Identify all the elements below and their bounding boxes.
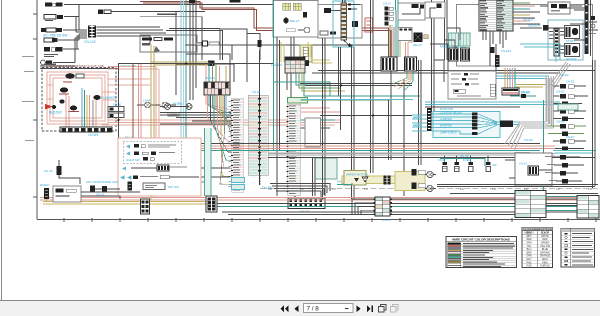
mid verticals [323,0,448,200]
teal junction boxes right-bottom of red box [124,136,146,146]
lamp L2 [162,102,176,108]
svg-text:CN-105: CN-105 [205,76,215,80]
junction box C [398,28,412,41]
teal risers [396,0,399,12]
fuse blocks F1 [108,103,124,118]
panel connectors [472,113,478,136]
border tick marks [33,14,596,222]
page number field [304,304,354,313]
vertical trunk lines left of grid [119,64,142,196]
legend text lines [463,243,515,267]
hanging sensor S4 [486,156,497,172]
teal horizontal y99 [301,99,414,101]
wires exiting column C right [301,100,391,128]
aircon connectors [90,186,120,197]
tiny label row above box [46,64,137,68]
wires out of table right [513,3,540,24]
cyan panel border [433,112,500,138]
fuse grid CN-F [374,197,393,216]
yellow channel run [342,171,425,191]
harness strip CN-B (tall colored stack) [248,40,268,185]
relay inside U1 [283,18,288,24]
cyan bundle lower right [553,151,596,154]
dashed switch group [123,141,181,163]
relay box U2 [318,5,362,39]
svg-text:MOTOR: MOTOR [566,57,576,61]
switch row 2 [126,152,130,156]
teal feed into channel [337,183,352,185]
connector P1 [45,3,79,7]
lamp L4 [425,185,436,191]
svg-text:CN-F1: CN-F1 [382,218,391,222]
wires from mini table to right [546,197,577,211]
svg-text:BUZZER: BUZZER [49,111,62,115]
snapshot icon [379,305,387,313]
engine harness enclosure edge [457,5,593,67]
mid horizontal wires [160,113,231,125]
starter relay assembly enclosure [548,20,583,61]
svg-text:LAMP: LAMP [143,99,151,103]
svg-text:B-METER: B-METER [440,124,452,128]
column C pin marks [287,106,289,192]
colored trunk right of ECM [505,68,515,88]
top wire with inline splice [79,5,342,15]
key switch row [128,182,133,191]
column C text marks [289,106,297,194]
gauge G2 [168,104,192,117]
stair wires into right area [430,28,460,82]
svg-text:SW: SW [492,163,497,167]
junction dots [118,63,406,199]
battery red box [365,18,373,32]
teal long wire y206 [207,206,598,208]
mini pin table bottom-right [515,191,546,218]
relay box lower right [505,153,553,186]
component box M1 [140,35,197,52]
fuse grid A inside U1 [283,3,291,10]
tan bundle end connector [208,61,215,67]
nested L wires left of fuse grid [352,199,374,214]
far right vertical pair [591,0,596,188]
trunk connector bar [502,88,530,95]
svg-text:1-8: 1-8 [460,187,464,191]
pin table CN-E (tall) [479,0,513,31]
control unit box U1 [273,1,318,38]
colored internal wires [66,88,96,128]
svg-text:CN-E8: CN-E8 [524,138,533,142]
label column A text marks [233,100,241,191]
strainer symbol [362,177,368,182]
teal enclosure with fusible link column [333,0,360,47]
svg-text:8 GROUND 1-8 1A CAB MAIN 2-3: 8 GROUND 1-8 1A CAB MAIN 2-3 NT CAB [46,64,104,68]
cyan boxes below column A [232,178,245,190]
wires from J1 to right [97,27,167,44]
black wire pairs lower right [437,185,598,194]
lamp L1 [137,99,161,108]
svg-text:CN-E5: CN-E5 [556,120,565,124]
convergence block [500,121,513,128]
sensor R1 [554,84,587,89]
black pair y83-85 [300,84,412,116]
svg-text:1-8: 1-8 [300,187,304,191]
verticals below bundle [313,158,316,196]
svg-text:CN-E0: CN-E0 [560,73,569,77]
striped stacks below mint blocks [449,48,470,61]
inline connector J1 (double bar) [84,26,96,45]
right rows extension [545,155,584,184]
svg-text:HORN: HORN [173,102,183,106]
switch panel pink box [118,138,201,196]
wires right of fuse grid [392,199,598,215]
label column C body [288,104,301,195]
toolbar background [0,301,600,316]
connector P5 [44,47,79,57]
meter circle inside U1 [304,27,310,33]
svg-text:WIPER MOTOR: WIPER MOTOR [346,173,369,177]
junction box A [398,3,425,20]
cyan harness wires [432,114,521,134]
CN bar row [157,165,169,171]
legend swatch rows [448,243,461,267]
fuse F2 inline [185,41,389,60]
misc cyan labels [205,73,569,222]
svg-text:CN-E15: CN-E15 [501,49,511,53]
svg-text:FLASHER: FLASHER [101,96,116,100]
connector P2 [44,15,79,22]
relay K1 [63,73,84,83]
washer motor M2 [412,169,426,189]
svg-text:CN-S3: CN-S3 [460,154,469,158]
teal channel vertical [205,128,212,196]
sensor R2 [510,90,588,99]
svg-text:LIGHT SW: LIGHT SW [126,158,140,162]
lamp L3 [425,171,436,177]
margin labels [22,56,34,141]
antenna connector [44,160,80,184]
svg-text:1-8: 1-8 [268,187,272,191]
junction box B [425,2,445,18]
harness bundle vertical [73,5,87,63]
cyan riser pair [181,0,186,180]
connector P4 [44,38,79,42]
teal drops to sensors [440,159,485,167]
svg-text:AIR CONDITIONER UNIT: AIR CONDITIONER UNIT [86,180,119,184]
bundle arrow mark [154,46,160,52]
svg-text:CN-E1: CN-E1 [566,80,575,84]
svg-text:KEY SW: KEY SW [168,185,179,189]
svg-text:7 / 8: 7 / 8 [307,306,320,313]
sensor R3 [554,102,583,107]
fusible link column FL1 [341,3,347,40]
striped block CN-H2 [405,57,417,71]
nested L feeders to CN-C [270,184,330,198]
label column pin marks [231,100,233,186]
svg-text:RELAY: RELAY [290,19,300,23]
gauge G1 [160,102,189,110]
black long wires y203/212 [205,204,598,215]
svg-text:LAMP CHECK: LAMP CHECK [440,131,457,135]
dropdown dash and arrow [345,308,349,309]
terminal block bottom-left TB2 [141,199,150,214]
sensor R8 [553,139,586,144]
panel left connector bar [427,108,432,131]
svg-text:CN-J2: CN-J2 [44,169,53,173]
maroon feed pair top [140,2,391,61]
glow relay K5 [413,33,428,48]
symbol legend table [561,229,595,268]
dashed section line y188 [260,187,598,191]
check valve symbol [354,178,359,182]
nested red harness loops [47,72,116,124]
khaki U-channel wires [281,42,332,63]
radio box [40,183,81,202]
black line above panel [425,106,520,108]
teal riser long [273,0,275,150]
bus label [44,64,56,65]
dashed enclosure box [42,68,116,132]
starter motor [565,44,580,62]
diode D1 [93,95,116,100]
svg-text:SENSOR: SENSOR [528,24,542,28]
teal horizontal y82 [273,82,340,96]
wire fan from grid to label column [206,95,232,185]
relay K2 [59,87,69,94]
small relay K4 [59,100,65,104]
svg-text:1-8: 1-8 [332,187,336,191]
multicolor bundle y143-152 [160,144,595,158]
colored harness bundle down [390,10,400,57]
hanging sensor S3 [463,156,473,172]
mint connector blocks left [449,33,471,46]
tan harness bundle down-left [151,44,212,200]
svg-text:PUR: PUR [526,265,531,268]
column A left stubs [229,101,232,186]
relay K3 [68,106,79,113]
svg-text:CLUSTER METER: CLUSTER METER [440,111,462,115]
viewer left edge line [1,0,3,300]
fan below CN-H2 [390,71,413,91]
sheet bottom border [37,219,600,221]
svg-text:A-METER: A-METER [440,117,452,121]
next-page button [357,306,361,313]
svg-text:CN-W1: CN-W1 [88,133,99,137]
right edge components [574,10,598,34]
red riser pair right of box [156,67,159,144]
svg-text:1-8 WASHER: 1-8 WASHER [118,64,137,68]
sensor R7 (green) [548,132,584,137]
red harness exits right [102,67,340,126]
sensor R6 (green wires) [546,124,586,129]
alternator box [540,2,582,14]
svg-text:START: START [566,39,575,43]
terminal strip TB1 [60,127,112,137]
relay stack CN-G [383,2,393,26]
svg-text:WIRE CIRCUIT COLOR DESCRIPTION: WIRE CIRCUIT COLOR DESCRIPTIONS [452,238,510,242]
glow plug relay [565,26,580,44]
svg-text:WS: WS [337,180,342,184]
breaker inside U1 [303,12,307,18]
sheet left border [36,0,38,220]
toolbar separator [0,300,600,302]
svg-text:CN-E12: CN-E12 [523,18,534,22]
ECM box [448,71,496,99]
label column rows [232,99,243,191]
long salmon pair y197-200 [40,197,598,200]
striped block CN-H1 [381,57,397,71]
far-right mini table [577,196,599,219]
teal vertical right [543,100,545,218]
snapshot icon disabled [391,305,399,313]
strip top feed [259,50,261,92]
sensor R5 [554,117,585,122]
small stack under table [490,47,511,67]
gray trunk bundle [505,76,554,151]
mint box right column [558,104,578,110]
pink feed pair [406,42,414,57]
fuse grid B inside U1 [293,3,301,10]
dashed stub below strip [260,175,272,190]
svg-text:1-8: 1-8 [556,187,560,191]
svg-text:1-8: 1-8 [588,187,592,191]
trunk diagonal feed [548,62,570,90]
svg-text:CN-G: CN-G [383,2,391,6]
lighter row [120,175,125,179]
sensor R9 [555,147,584,152]
svg-text:PURPLE: PURPLE [540,265,550,268]
feeds above FL1 [343,0,346,3]
wires from U1 down to CN-M [277,37,294,196]
connector header grid CN-A [204,62,230,95]
svg-text:MONITOR: MONITOR [440,107,453,111]
connector P3 [41,28,87,38]
connector P6 [41,60,75,65]
color abbreviation table [522,227,553,267]
svg-text:1-8: 1-8 [492,187,496,191]
svg-text:RELAY: RELAY [413,43,422,47]
white cover box right of column C [305,118,321,147]
last-page button [367,306,373,313]
splice block S1 [189,0,195,4]
splice block S2 top edge [230,0,241,3]
wires joining TB2 [81,192,140,199]
left bottom wires [43,168,230,207]
hanging sensor S2 [455,156,460,172]
striped connector bar CN-C [288,198,325,214]
prev-page button [294,306,298,313]
cyan bus above panel [425,102,560,105]
main cab connector CN-M [271,57,305,73]
svg-text:CN-E7: CN-E7 [566,135,575,139]
black risers [176,0,196,100]
svg-text:FUSE: FUSE [113,103,121,107]
striped bar inside [554,29,559,56]
sensor label wire [140,14,202,61]
colored fan below CN-M [296,73,420,96]
buzzer B1 (red wedge) [45,104,62,115]
olive horizontals right [516,85,546,88]
cyan wires right area [460,44,560,79]
starter bar (tall dark) [566,0,589,54]
long horizontal bus y63-73 [118,64,595,74]
svg-text:CN-C2: CN-C2 [300,210,309,214]
mint box lower [315,158,337,179]
svg-text:CN-90: CN-90 [252,90,261,94]
strip center spine [259,92,261,185]
first-page button [280,306,288,313]
stair-step wires to grid [166,29,260,83]
panel labels [440,111,462,135]
svg-text:RADIO: RADIO [40,183,50,187]
khaki connector block below U1 [300,45,312,66]
cyan stub rows left of panel [412,115,427,131]
svg-text:A/C PRESS SW: A/C PRESS SW [43,34,68,38]
inline connector CN-W [384,176,391,185]
cyan labels right column [556,80,575,159]
small sensors mid-right top [520,18,563,31]
svg-text:1-8: 1-8 [364,187,368,191]
terminal block TB3 [206,196,217,212]
ground bus wire [40,66,118,69]
FL1 output diagonal [344,40,353,46]
sensor R4 [554,109,587,114]
svg-text:CN-R2: CN-R2 [521,90,530,94]
hanging sensor S1 [438,156,447,172]
wire color description table [446,237,517,268]
green header box [288,98,308,104]
svg-text:CN-K1: CN-K1 [519,162,528,166]
pin dash rows [549,28,564,53]
wires below table [483,31,506,70]
svg-text:CN-102: CN-102 [84,40,96,44]
speaker connector [44,188,49,202]
svg-text:CN-E2: CN-E2 [556,90,565,94]
switch row 1 [126,145,130,149]
wire label column (tall stack) [232,98,244,192]
